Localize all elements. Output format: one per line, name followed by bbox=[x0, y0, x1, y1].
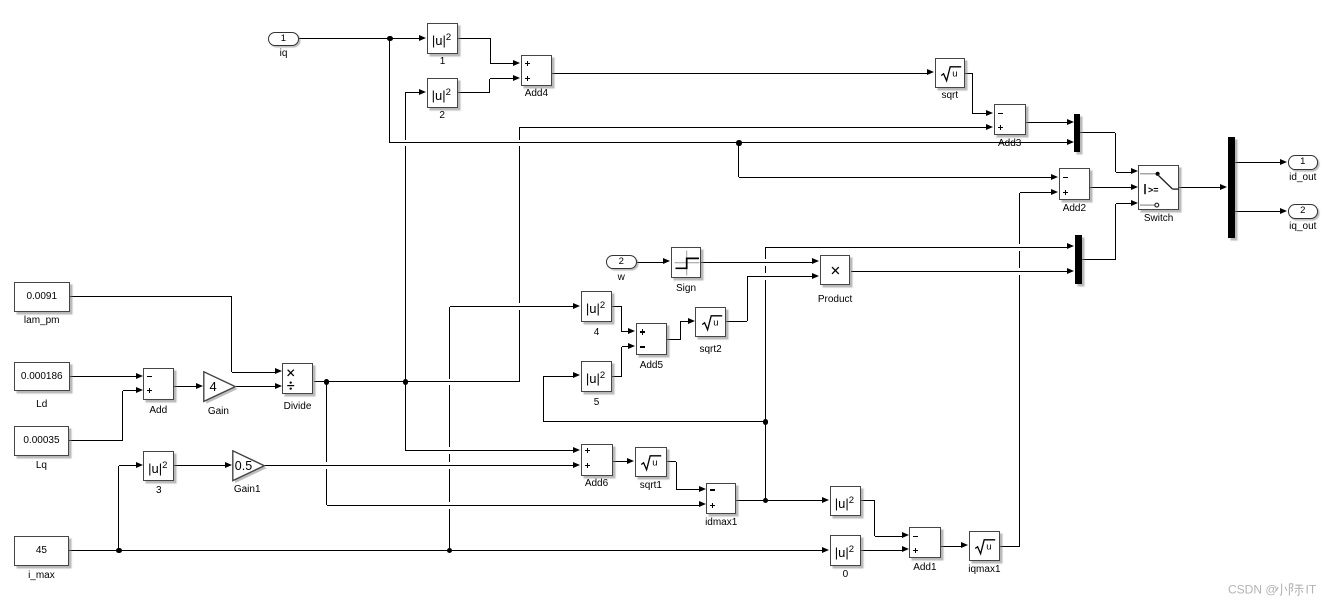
sum block Add1 bbox=[909, 527, 941, 558]
wire Sign output to Product first input bbox=[701, 262, 812, 263]
gain block Gain value 4 bbox=[203, 371, 239, 405]
label 5 bbox=[527, 397, 667, 408]
label Gain bbox=[148, 406, 288, 417]
switch block Switch bbox=[1138, 165, 1179, 211]
wire sqrt output to Add3 minus input bbox=[965, 73, 973, 74]
wire Add output to Gain bbox=[174, 386, 196, 387]
svg-text:CSDN @: CSDN @ bbox=[1228, 583, 1278, 597]
wire Switch output to Demux bbox=[1179, 187, 1220, 188]
label Ld bbox=[0, 399, 112, 410]
wire Mux output to Switch first input bbox=[1080, 132, 1115, 133]
sqrt block sqrt1 bbox=[635, 447, 667, 478]
product block Product bbox=[820, 255, 851, 285]
constant block lam_pm 0.0091 bbox=[14, 282, 70, 313]
wire sqrt1 output to idmax1 minus input bbox=[667, 461, 677, 462]
label iqmax1 bbox=[914, 564, 1054, 575]
wire Product output to Mux1 second input bbox=[851, 271, 1068, 272]
sqrt block iqmax1 bbox=[969, 531, 1000, 562]
demux block (1 to 2) bbox=[1228, 137, 1235, 238]
input port 1 iq bbox=[268, 32, 299, 46]
wire Divide output horizontal y382 with junctions bbox=[314, 381, 520, 382]
wire Add2 output to Switch control input bbox=[1090, 187, 1131, 188]
wire Divide-net vertical x326.5 down to idmax1 plus input bbox=[326, 382, 327, 462]
wire Lq to Add plus input bbox=[69, 440, 122, 441]
label 0 bbox=[775, 569, 915, 580]
wire Add1 output to iqmax1 bbox=[941, 546, 962, 547]
svg-text:u: u bbox=[713, 317, 718, 328]
wire squarer 5 to Add5 minus input bbox=[612, 376, 622, 377]
label Add bbox=[88, 405, 228, 416]
wire Add4 output to sqrt bbox=[552, 73, 927, 74]
sum block Add6 bbox=[581, 444, 613, 476]
wire squarer 1 to Add4 first input bbox=[458, 38, 491, 39]
wire squarer 0 to Add1 plus input bbox=[861, 550, 902, 551]
wire Demux second output to iq_out port bbox=[1235, 211, 1281, 212]
squarer block 2 |u|^2 bbox=[427, 78, 458, 108]
label Gain1 bbox=[177, 484, 317, 495]
wire idmax1-net vertical x765.2 up to y247, junction at y422 bbox=[765, 247, 766, 259]
watermark CSDN bbox=[1228, 582, 1328, 600]
wire iq long horizontal y143 into Mux in2, junction at x739 bbox=[390, 142, 1067, 143]
sum block Add3 bbox=[994, 104, 1026, 135]
sqrt block bbox=[935, 58, 965, 88]
wire idmax1-net branch y422 left and up to squarer 5 bbox=[544, 421, 766, 422]
wire Gain1 output to Add6 second input bbox=[263, 465, 573, 466]
label lam_pm bbox=[0, 315, 112, 326]
squarer block 0 |u|^2 bbox=[830, 535, 861, 566]
svg-text:u: u bbox=[987, 541, 992, 552]
wire upper squarer to Add1 minus input bbox=[861, 500, 875, 501]
label iq_out bbox=[1233, 221, 1332, 232]
label Add4 bbox=[466, 88, 606, 99]
constant block i_max 45 bbox=[14, 536, 70, 566]
svg-text:u: u bbox=[652, 457, 657, 468]
wire iqmax1 output up to Add2 plus input bbox=[1000, 546, 1020, 547]
svg-text:>=: >= bbox=[1148, 184, 1159, 194]
wire squarer 2 to Add4 second input bbox=[458, 92, 491, 93]
label Product bbox=[765, 294, 905, 305]
label Add1 bbox=[855, 562, 995, 573]
label 2 bbox=[372, 110, 512, 121]
divide block Divide bbox=[282, 363, 313, 394]
label iq bbox=[214, 48, 354, 59]
wire iq branch from x739 down to Add2 first input bbox=[738, 143, 739, 177]
label sqrt2 bbox=[641, 344, 781, 355]
wire i_max riser x449.8 to squarer 4 bbox=[449, 307, 450, 379]
label i_max bbox=[0, 570, 111, 581]
wire Gain output to Divide divide input bbox=[234, 386, 275, 387]
wire Divide-net riser x519.4 up to Add3 plus input bbox=[519, 128, 520, 140]
output port 1 id_out bbox=[1288, 155, 1318, 169]
label Lq bbox=[0, 460, 111, 471]
label w bbox=[551, 272, 691, 283]
sum block Add4 bbox=[521, 55, 552, 86]
wire sqrt2 output up to Product second input bbox=[726, 321, 748, 322]
wire idmax1-net horizontal y247 to Mux1 first input bbox=[765, 247, 1067, 248]
squarer block 4 |u|^2 bbox=[581, 291, 612, 322]
svg-text:0.5: 0.5 bbox=[234, 459, 251, 473]
constant block Ld 0.000186 bbox=[14, 362, 70, 392]
wire i_max horizontal y550.6 to squarer 0, junctions x119 x449.8 bbox=[69, 550, 822, 551]
squarer block 3 |u|^2 bbox=[143, 451, 174, 482]
wire Add5 output to sqrt2 bbox=[667, 339, 680, 340]
sum block idmax1 bbox=[706, 483, 736, 514]
wire squarer 4 to Add5 plus input bbox=[612, 306, 622, 307]
label id_out bbox=[1233, 172, 1332, 183]
mux block (2 to 1) bbox=[1074, 114, 1080, 152]
label Add6 bbox=[527, 478, 667, 489]
sum block Add2 bbox=[1059, 168, 1090, 200]
wire iq branch vertical x390 down to y143 bbox=[389, 39, 390, 144]
label Add2 bbox=[1004, 203, 1144, 214]
sign block Sign bbox=[671, 247, 702, 278]
label Add5 bbox=[581, 360, 721, 371]
label 4 bbox=[527, 327, 667, 338]
label Sign bbox=[616, 283, 756, 294]
label idmax1 bbox=[651, 517, 791, 528]
wire Ld to Add minus input bbox=[69, 376, 135, 377]
label sqrt bbox=[880, 90, 1020, 101]
sum block Add bbox=[143, 368, 174, 400]
squarer block 1 |u|^2 bbox=[427, 23, 458, 54]
wire Demux first output to id_out port bbox=[1235, 162, 1281, 163]
constant block Lq 0.00035 bbox=[14, 426, 70, 456]
label 3 bbox=[89, 485, 229, 496]
input port 2 w bbox=[606, 255, 637, 269]
output port 2 iq_out bbox=[1288, 204, 1318, 218]
label Switch bbox=[1089, 213, 1229, 224]
sqrt block sqrt2 bbox=[695, 307, 726, 337]
wire iq to squarer 1, junction at x390 bbox=[299, 38, 420, 39]
wire lam_pm to Divide times input bbox=[69, 296, 231, 297]
svg-text:4: 4 bbox=[209, 379, 216, 394]
wire Add3 output to Mux first input bbox=[1026, 122, 1067, 123]
label Add3 bbox=[940, 138, 1080, 149]
label Divide bbox=[228, 401, 368, 412]
label 1 bbox=[373, 56, 513, 67]
wire w port to Sign bbox=[637, 262, 664, 263]
wire i_max riser x119 to squarer 3 bbox=[118, 466, 119, 551]
wire idmax1 output to squarer, junction x765.2 bbox=[736, 500, 823, 501]
label sqrt1 bbox=[581, 480, 721, 491]
wire squarer 3 to Gain1 bbox=[174, 465, 224, 466]
gain block Gain1 value 0.5 bbox=[232, 450, 268, 484]
sum block Add5 bbox=[636, 323, 667, 355]
svg-text:u: u bbox=[952, 68, 957, 79]
mux block 1 (2 to 1) lower bbox=[1075, 235, 1082, 284]
svg-text:IT: IT bbox=[1306, 583, 1317, 597]
wire Add6 output to sqrt1 bbox=[613, 461, 628, 462]
squarer block 5 |u|^2 bbox=[581, 361, 612, 392]
wire Mux1 output to Switch third input bbox=[1082, 259, 1116, 260]
squarer block upper |u|^2 (unnamed) bbox=[830, 486, 861, 517]
wire Divide-net vertical x405.4 up to squarer 2 and down to Add6 bbox=[405, 93, 406, 140]
